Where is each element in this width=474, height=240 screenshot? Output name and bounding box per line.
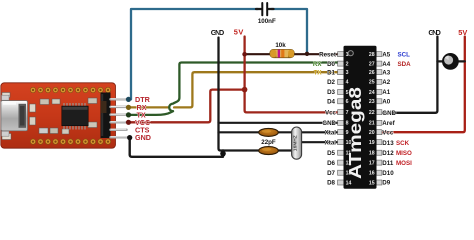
svg-text:19: 19 [369, 140, 375, 146]
svg-text:A0: A0 [382, 99, 390, 106]
svg-text:16: 16 [369, 171, 375, 177]
svg-text:9: 9 [346, 130, 349, 136]
svg-text:100nF: 100nF [258, 18, 276, 25]
svg-text:GND: GND [322, 120, 336, 127]
svg-text:GND: GND [135, 133, 151, 142]
svg-text:24: 24 [369, 90, 375, 96]
svg-text:A1: A1 [382, 89, 390, 96]
svg-text:20: 20 [369, 130, 375, 136]
svg-text:15: 15 [369, 180, 375, 186]
svg-text:18: 18 [369, 151, 375, 157]
svg-text:RX: RX [313, 61, 322, 68]
svg-text:17: 17 [369, 160, 375, 166]
svg-text:D1: D1 [327, 69, 335, 76]
svg-text:D2: D2 [327, 79, 335, 86]
svg-text:28: 28 [369, 52, 375, 58]
svg-text:D9: D9 [382, 180, 390, 187]
svg-text:GND: GND [382, 110, 396, 117]
svg-text:1: 1 [346, 52, 349, 58]
svg-text:5V: 5V [458, 28, 467, 37]
svg-text:4: 4 [346, 80, 349, 86]
svg-text:SCK: SCK [396, 140, 410, 147]
svg-text:A3: A3 [382, 69, 390, 76]
svg-text:GND: GND [211, 28, 225, 37]
svg-text:21: 21 [369, 121, 375, 127]
svg-text:5V: 5V [234, 28, 244, 37]
svg-text:23: 23 [369, 99, 375, 105]
svg-text:12: 12 [346, 160, 352, 166]
svg-text:10k: 10k [275, 42, 286, 49]
svg-text:11: 11 [346, 151, 352, 157]
svg-text:D12: D12 [382, 150, 394, 157]
svg-text:D6: D6 [327, 160, 335, 167]
svg-text:TX: TX [314, 69, 323, 76]
svg-text:D7: D7 [327, 170, 335, 177]
svg-text:D13: D13 [382, 140, 394, 147]
svg-text:D8: D8 [327, 180, 335, 187]
svg-text:22: 22 [369, 110, 375, 116]
svg-text:22pF: 22pF [261, 139, 276, 146]
svg-text:14: 14 [346, 180, 352, 186]
svg-text:A2: A2 [382, 79, 390, 86]
svg-text:A5: A5 [382, 51, 390, 58]
svg-text:16MHZ: 16MHZ [293, 135, 299, 151]
svg-text:Reset: Reset [319, 51, 336, 58]
svg-text:13: 13 [346, 171, 352, 177]
svg-text:D11: D11 [382, 160, 394, 167]
svg-text:D4: D4 [327, 99, 335, 106]
svg-text:D3: D3 [327, 89, 335, 96]
svg-text:Vcc: Vcc [382, 129, 394, 136]
svg-text:SDA: SDA [398, 61, 412, 68]
svg-text:SCL: SCL [398, 51, 411, 58]
svg-text:10: 10 [346, 140, 352, 146]
svg-text:Aref: Aref [382, 120, 395, 127]
svg-text:8: 8 [346, 121, 349, 127]
svg-text:7: 7 [346, 110, 349, 116]
svg-text:MISO: MISO [396, 150, 412, 157]
svg-text:2: 2 [346, 61, 349, 67]
svg-text:MOSI: MOSI [396, 160, 412, 167]
svg-text:D0: D0 [327, 61, 335, 68]
svg-text:25: 25 [369, 80, 375, 86]
svg-text:26: 26 [369, 70, 375, 76]
svg-text:A4: A4 [382, 61, 390, 68]
svg-text:D10: D10 [382, 170, 394, 177]
svg-text:6: 6 [346, 99, 349, 105]
svg-text:Xtal: Xtal [325, 139, 337, 146]
svg-text:5: 5 [346, 90, 349, 96]
svg-text:Vcc: Vcc [325, 109, 337, 116]
svg-text:GND: GND [428, 28, 441, 37]
svg-text:Xtal: Xtal [325, 129, 337, 136]
svg-text:3: 3 [346, 70, 349, 76]
svg-text:27: 27 [369, 61, 375, 67]
svg-text:D5: D5 [327, 150, 335, 157]
